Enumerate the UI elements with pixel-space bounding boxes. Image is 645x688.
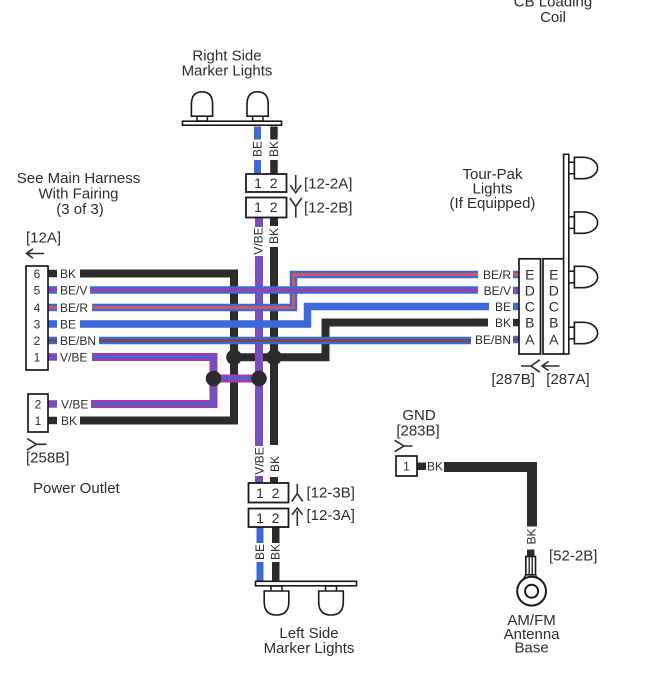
svg-text:[12-3B]: [12-3B] [307,485,355,502]
svg-text:D: D [549,283,559,299]
connector [287B] [519,259,541,354]
bracket left side marker [256,581,357,586]
label CB Loading Coil [514,0,592,26]
junction dot A [226,350,242,366]
svg-text:2: 2 [270,175,278,191]
svg-text:BE/R: BE/R [483,268,511,282]
svg-text:[12A]: [12A] [26,230,61,247]
label [12-3B] [307,485,355,502]
wire BE/BN main harness pin 2 to Tour-Pak pin A [99,337,471,345]
svg-text:V/BE: V/BE [60,350,87,364]
pin stub [12A] pin 3 BE [48,320,57,328]
pin stub [258B] pin 2 V/BE [48,400,57,408]
svg-text:BE: BE [251,141,265,157]
svg-text:B: B [525,315,534,331]
wire label BK ground [427,459,443,473]
wire label BK above 12-3B [268,456,282,472]
svg-text:BK: BK [267,228,281,244]
wire label BE/V pin 5 [60,283,87,297]
svg-text:BE/BN: BE/BN [60,334,96,348]
connector [12-2A] [246,174,287,192]
svg-text:2: 2 [270,199,278,215]
bracket tour-pak lights [564,154,569,354]
pin stub [287B] pin A BE/BN [513,336,520,344]
svg-text:1: 1 [256,510,264,526]
wire V/BE vertical marker-light bus [255,215,263,484]
svg-text:BE: BE [495,300,511,314]
terminal crimp antenna [524,557,538,579]
label Right Side Marker Lights [182,47,273,79]
pin stub [287B] pin D BE/V [513,287,520,295]
connector symbol inverted Y [12-3B] [292,484,303,502]
wire BE main harness pin 3 to Tour-Pak pin C [80,307,489,325]
connector symbol Y [12-2B] [290,198,302,218]
svg-text:(3 of 3): (3 of 3) [56,201,104,218]
svg-text:2: 2 [34,334,41,348]
svg-text:[258B]: [258B] [26,450,69,467]
pin stub [12A] pin 6 BK [48,270,57,278]
wire label V/BE pin 1 [60,350,87,364]
wire label BK above left bracket [269,544,283,560]
svg-text:B: B [549,315,558,331]
label Tour-Pak Lights (If Equipped) [450,166,536,212]
svg-text:3: 3 [34,317,41,331]
arrow up [12-3A] [292,508,303,526]
svg-text:[287A]: [287A] [546,371,589,388]
svg-text:[12-3A]: [12-3A] [307,507,355,524]
arrow left [12A] [27,249,45,258]
svg-text:1: 1 [35,414,42,428]
connector [283B] [396,456,417,476]
wire BE left side marker [257,527,264,582]
svg-text:Coil: Coil [540,9,566,26]
lamp right side marker 1 [191,92,212,121]
svg-text:V/BE: V/BE [253,447,267,474]
arrow down [12-2A] [290,175,301,193]
label [287A] [546,371,589,388]
arrow left [287A] [542,361,560,370]
wire BE/R main harness pin 4 to Tour-Pak pin E [92,275,478,308]
svg-text:E: E [549,267,558,283]
wire label BE vertical top [251,141,265,157]
svg-text:BE/V: BE/V [484,284,511,298]
label Power Outlet [33,480,121,497]
wire label BE/R pin 4 [60,301,88,315]
svg-text:1: 1 [254,199,262,215]
svg-text:1: 1 [403,459,410,473]
svg-text:BE/BN: BE/BN [475,333,511,347]
svg-text:2: 2 [272,510,280,526]
label Left Side Marker Lights [264,625,355,657]
wire label V/BE power outlet [61,397,88,411]
pin stub [287B] pin B BK [513,319,520,327]
svg-text:BE/R: BE/R [60,301,88,315]
junction dot D [251,371,267,387]
svg-text:BK: BK [61,414,77,428]
svg-text:BK: BK [267,141,281,157]
wire BK ground to antenna [444,467,532,527]
svg-text:1: 1 [34,350,41,364]
svg-text:BK: BK [268,456,282,472]
wire BK bridge to Tour-Pak pin B [234,323,488,358]
svg-text:BK: BK [525,528,539,544]
svg-text:2: 2 [35,397,42,411]
svg-text:A: A [549,332,559,348]
svg-text:(If Equipped): (If Equipped) [450,195,536,212]
label [258B] [26,450,69,467]
wire label BE above left bracket [253,544,267,560]
svg-text:BK: BK [495,316,511,330]
wire label BE/R Tour-Pak pin E [483,268,511,282]
connector symbol [287B] [521,360,540,372]
wire BK right side marker [270,127,278,175]
svg-text:1: 1 [254,175,262,191]
wire BK left side marker [272,527,280,582]
lamp left side marker 1 [264,586,289,615]
junction dot B [266,350,282,366]
label [12-2B] [304,200,352,217]
connector [12-3A] [249,509,289,528]
svg-text:[52-2B]: [52-2B] [549,548,597,565]
svg-text:BE: BE [60,317,76,331]
wire label BK pin 6 [60,267,76,281]
label GND [402,407,436,424]
pin stub [283B] pin 1 BK [417,463,426,471]
pin stub [258B] pin 1 BK [48,417,57,425]
svg-text:6: 6 [34,267,41,281]
pin stub [12A] pin 4 BE/R [48,304,57,312]
label AM/FM Antenna Base [504,612,561,657]
junction dot C [206,371,222,387]
connector [12-2B] [246,198,287,218]
label [12-2A] [304,176,352,193]
svg-text:1: 1 [256,485,264,501]
label [283B] [396,422,439,439]
ring terminal AM/FM antenna base [517,577,546,606]
wire label BE/BN pin 2 [60,334,96,348]
connector [287A] [543,259,565,354]
wire V/BE bridge [214,375,260,383]
svg-text:[283B]: [283B] [396,422,439,439]
connector symbol [258B] [27,439,47,451]
connector [258B] power outlet [28,394,48,432]
svg-text:V/BE: V/BE [61,397,88,411]
svg-text:BK: BK [60,267,76,281]
wire BK vertical marker-light bus [270,215,278,484]
svg-text:BK: BK [269,544,283,560]
label [287B] [492,371,535,388]
pin stub [12A] pin 5 BE/V [48,286,57,294]
svg-text:4: 4 [34,301,41,315]
wire label V/BE below 12-2B [252,227,266,254]
svg-text:BE/V: BE/V [60,283,87,297]
svg-text:D: D [525,283,535,299]
wire label BK vertical top [267,141,281,157]
wire BK main harness pin 6 to power outlet pin 1 [80,274,234,421]
svg-text:BE: BE [253,544,267,560]
wire BE right side marker [254,127,261,175]
svg-text:C: C [549,299,559,315]
pin stub [287B] pin E BE/R [513,271,520,279]
wire BE/V main harness pin 5 to Tour-Pak pin D [90,286,478,294]
wire label BE Tour-Pak pin C [495,300,511,314]
svg-text:Marker Lights: Marker Lights [182,63,273,80]
svg-text:BK: BK [427,459,443,473]
wire V/BE main harness pin 1 to power outlet pin 2 [91,357,214,404]
svg-text:[287B]: [287B] [492,371,535,388]
svg-text:C: C [525,299,535,315]
svg-text:With Fairing: With Fairing [38,185,118,202]
label [52-2B] [549,548,597,565]
connector [12-3B] [249,483,289,503]
lamp left side marker 2 [319,586,344,615]
wire label BE/BN Tour-Pak pin A [475,333,511,347]
lamp tour-pak 2 [569,212,598,233]
svg-text:Power Outlet: Power Outlet [33,480,121,497]
wire label BK Tour-Pak pin B [495,316,511,330]
lamp tour-pak 4 [569,322,598,343]
label See Main Harness With Fairing (3 of 3) [17,170,140,218]
wire label BE/V Tour-Pak pin D [484,284,511,298]
bracket right side marker [183,121,282,125]
svg-text:Marker Lights: Marker Lights [264,640,355,657]
svg-text:See Main Harness: See Main Harness [17,170,140,187]
wire label BK below 12-2B [267,228,281,244]
terminal stub antenna [527,550,535,557]
svg-text:A: A [525,332,535,348]
pin stub [287B] pin C BE [513,303,520,311]
wire label V/BE above 12-3B [253,447,267,474]
label [12-3A] [307,507,355,524]
connector [12A] 6-place [26,266,48,370]
svg-text:5: 5 [34,283,41,297]
pin stub [12A] pin 1 V/BE [48,353,57,361]
svg-text:V/BE: V/BE [252,227,266,254]
lamp right side marker 2 [247,92,268,121]
lamp tour-pak 3 [569,266,598,287]
wire label BK power outlet [61,414,77,428]
pin stub [12A] pin 2 BE/BN [48,337,57,345]
svg-text:[12-2A]: [12-2A] [304,176,352,193]
label [12A] [26,230,61,247]
wire label BE pin 3 [60,317,76,331]
wire label BK antenna lead [525,528,539,544]
connector symbol [283B] [395,440,413,451]
lamp tour-pak 1 [569,157,598,178]
svg-text:[12-2B]: [12-2B] [304,200,352,217]
svg-text:Base: Base [514,640,548,657]
svg-text:E: E [525,267,534,283]
svg-text:2: 2 [272,485,280,501]
